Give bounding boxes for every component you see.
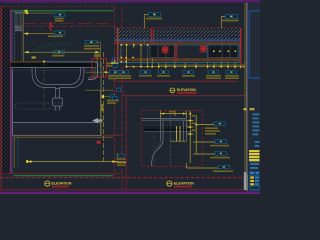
yellow dim line y13 — [24, 12, 55, 14]
furring hatched strip — [15, 31, 22, 62]
label L4 center cyan boxes + text — [84, 40, 101, 49]
label L3 cyan box — [52, 50, 65, 56]
tiny dim text y55 — [32, 56, 36, 58]
yellow dash left of divider — [243, 108, 246, 110]
label L2 cyan box — [48, 31, 65, 37]
title scale red text — [52, 186, 69, 188]
svg-text:ELEVATION: ELEVATION — [177, 88, 196, 92]
countertop section — [44, 62, 98, 79]
stud blocking blocks — [15, 12, 23, 14]
label group G3 — [215, 152, 226, 155]
basin bowl under counter — [32, 68, 84, 89]
hatch band in detail — [144, 125, 192, 132]
brown lower band — [118, 58, 241, 61]
red double vertical seam — [174, 45, 176, 63]
cyan line under cabinet — [115, 62, 241, 64]
palette yellow highlight block — [249, 150, 260, 161]
ceiling top red dashed line — [115, 27, 241, 29]
red kick marker — [96, 140, 100, 144]
yellow leader y72 — [86, 71, 109, 73]
scrollbar thumb — [244, 172, 247, 190]
mirror panel left — [150, 45, 175, 58]
ceiling hatch band — [115, 29, 241, 40]
sheet left border red — [0, 7, 2, 190]
yellow dim line y33.5 — [24, 33, 55, 35]
red wall line y19.5 — [24, 23, 115, 25]
right sheet left border red dashed x122 — [121, 7, 123, 190]
red target symbol right — [199, 45, 207, 53]
title bottom-right: circle — [167, 181, 172, 186]
top purple window bar — [0, 0, 260, 1]
stone label row y88-96 — [85, 89, 114, 91]
basin centerline — [43, 62, 45, 110]
green datum line top — [11, 10, 114, 12]
purple finish line right of wall — [10, 11, 12, 174]
mid-left yellow labels — [106, 63, 115, 65]
dim chain tick blobs — [126, 66, 245, 68]
upstand column — [161, 119, 187, 141]
section bubble blue circle — [111, 58, 118, 64]
yellow dim line y52 — [24, 51, 100, 53]
bottom colorful block — [249, 176, 260, 191]
vertical dim line x100.5 — [100, 90, 102, 135]
elevation red side edges — [117, 28, 119, 63]
bottle trap — [53, 89, 63, 111]
yellow dim extension vertical x23.5 — [23, 11, 25, 62]
svg-text:ELEVATION: ELEVATION — [174, 181, 194, 185]
apron S-curve — [152, 141, 164, 166]
long red line above bottom purple bar — [0, 189, 243, 191]
top dim line y113.5 — [161, 111, 187, 118]
red dashed detail box — [141, 110, 203, 166]
red target symbol left — [161, 46, 169, 54]
label L1 cyan box — [54, 13, 64, 22]
bottom dim label — [117, 154, 127, 166]
yellow dim verticals in cabinet — [127, 45, 153, 67]
olive vertical line — [244, 3, 246, 172]
cabinet outer cyan rect — [121, 45, 240, 63]
right dim vertical x190 — [187, 111, 197, 164]
leader label B boxes — [221, 15, 238, 66]
olive floor line y137 — [14, 136, 114, 138]
palette cyan rows lower — [250, 163, 259, 169]
red seam pair in band — [150, 29, 152, 45]
yellow dashed vertical x103.5 — [103, 52, 105, 162]
right palette background — [248, 3, 261, 192]
mirror panel right — [208, 45, 238, 58]
dim label groups row — [116, 71, 239, 79]
drawer dashed rect — [16, 103, 62, 109]
label group G1 — [214, 122, 225, 125]
red wall dashed line y26 — [10, 26, 115, 28]
short red vertical right of elevation — [240, 58, 242, 67]
cabinet interior fill — [13, 68, 101, 122]
svg-text:ELEVATION: ELEVATION — [52, 181, 72, 185]
cyan dividers — [147, 45, 149, 63]
bottom red floor line y173.5 — [10, 173, 122, 175]
red separator line y95.5 — [122, 95, 247, 97]
yellow leader vertical x100 — [100, 42, 102, 69]
gray divider line — [246, 3, 248, 191]
canvas background — [0, 0, 260, 194]
palette cyan text rows — [253, 114, 260, 147]
counter left orange edge line — [11, 61, 45, 63]
title bottom-left: circle — [45, 181, 50, 186]
floor line y135 — [11, 134, 122, 136]
teal plan arcs — [34, 43, 70, 50]
detail callout red box at counter edge — [92, 59, 107, 78]
kick verticals — [13, 137, 15, 168]
stud wall verticals — [15, 11, 22, 31]
label group G4 — [218, 165, 229, 168]
sheet bottom border red dashed y177.5 full width — [0, 177, 243, 179]
sheet top border red dashed — [1, 6, 115, 8]
yellow edge verticals — [176, 126, 178, 141]
leader label A boxes — [144, 13, 162, 45]
label group G2 — [215, 140, 226, 143]
centerline dashed — [170, 113, 172, 166]
bottom purple window bar — [0, 191, 260, 192]
red line under labels y81 — [115, 80, 238, 82]
dim chain y66.7 — [125, 63, 245, 69]
bright red break mark — [50, 22, 53, 31]
gray section arrow lower — [92, 118, 103, 123]
leader label boxes right — [110, 70, 115, 74]
bottom dim line y161.5 — [27, 161, 117, 163]
blue palette box top — [249, 11, 260, 78]
palette yellow row y108 — [250, 108, 255, 110]
left edge cyan boxes — [113, 64, 117, 68]
yellow tick dots row — [121, 44, 237, 63]
blue ceiling line — [115, 39, 241, 41]
title top-right: circle — [170, 88, 175, 93]
left border red x126 — [125, 96, 127, 190]
cabinet outline — [13, 62, 102, 136]
bright yellow line segment — [246, 174, 248, 190]
counter gray double lines — [141, 118, 187, 120]
cyan dashed finish line — [11, 11, 13, 174]
green floor line y175.5 — [14, 175, 114, 177]
brown trim band — [115, 41, 241, 44]
wall hatch column — [2, 7, 11, 174]
sheet right border red dashed x114.5 — [114, 7, 116, 178]
blue band row — [249, 171, 260, 175]
leader yellows to labels — [187, 125, 219, 168]
